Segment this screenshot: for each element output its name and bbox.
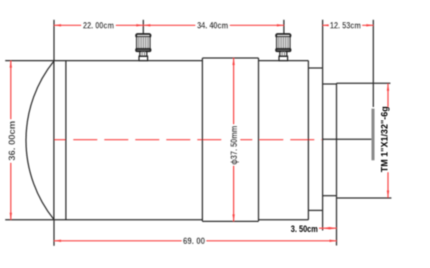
front rim vertical right	[65, 61, 67, 220]
svg-text:22. 00cm: 22. 00cm	[83, 21, 114, 32]
zoom ring top	[202, 57, 258, 59]
dimension 12.53cm line	[323, 24, 374, 26]
dimension 3.50cm line	[319, 227, 337, 229]
svg-text:TM 1"X1/32"-6g: TM 1"X1/32"-6g	[380, 106, 390, 172]
thread barrel left edge + 69.00 right extension	[336, 83, 338, 245]
dimension phi37.50mm line	[232, 58, 234, 221]
svg-text:36. 00cm: 36. 00cm	[7, 121, 18, 161]
zoom ring right edge	[258, 58, 260, 221]
barrel top line right of ring	[259, 60, 309, 62]
svg-text:12. 53cm: 12. 53cm	[330, 21, 361, 32]
barrel bottom line right of ring	[259, 219, 309, 221]
extension line knob2	[283, 20, 285, 34]
flange ring bottom	[323, 195, 337, 197]
thread callout dimension line	[387, 84, 389, 198]
thread end face thick bar	[372, 109, 375, 161]
locking knob 2	[276, 34, 290, 61]
extension line front face bottom	[53, 220, 55, 246]
lens front element arc	[26, 61, 54, 220]
centerline (red dashed optical axis)	[54, 139, 321, 141]
svg-text:34. 40cm: 34. 40cm	[197, 21, 228, 32]
step right edge + 12.53 left extension + 3.50 left extension	[322, 20, 324, 231]
centerline rear solid segment	[323, 138, 374, 140]
extension line front face top	[53, 20, 55, 61]
main barrel right edge	[307, 61, 309, 220]
flange ring top	[323, 83, 337, 85]
thread barrel top + thread callout extension	[337, 82, 391, 84]
step section top	[308, 67, 322, 69]
thread barrel bottom + thread callout extension	[337, 197, 392, 199]
zoom ring bottom	[202, 220, 258, 222]
zoom ring left edge	[201, 58, 203, 221]
dimension 22.00cm line	[54, 24, 143, 26]
svg-text:3. 50cm: 3. 50cm	[291, 224, 318, 235]
front rim vertical left	[53, 61, 55, 220]
12.53 right extension	[372, 20, 374, 107]
svg-text:ϕ37. 50mm: ϕ37. 50mm	[229, 126, 240, 165]
barrel top line left of ring	[5, 60, 202, 62]
step section bottom	[308, 209, 322, 211]
svg-text:69. 00: 69. 00	[183, 236, 205, 247]
dimension 36.00cm line	[10, 61, 12, 220]
extension line knob1	[142, 20, 144, 34]
dimension 69.00 line	[54, 240, 337, 242]
locking knob 1	[136, 34, 150, 61]
dimension 34.40cm line	[143, 24, 284, 26]
barrel bottom line left of ring	[5, 219, 202, 221]
